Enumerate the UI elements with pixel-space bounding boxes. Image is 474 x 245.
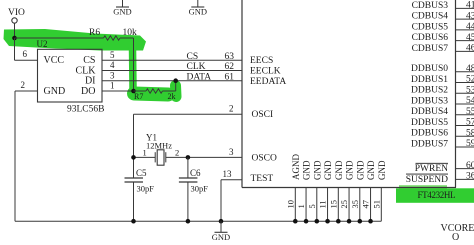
svg-text:GND: GND [323, 160, 333, 180]
resistor R7 [146, 89, 163, 93]
svg-text:55: 55 [466, 107, 474, 117]
svg-text:13: 13 [223, 169, 233, 179]
wire C6 top [187, 157, 189, 178]
svg-text:54: 54 [466, 96, 474, 106]
svg-text:3: 3 [229, 147, 234, 157]
svg-text:4: 4 [110, 60, 115, 70]
wire ground rail [15, 220, 381, 222]
node xtal-C6 [186, 155, 191, 160]
svg-text:62: 62 [225, 62, 235, 72]
svg-text:OSCI: OSCI [252, 110, 274, 120]
wire GND pin2 left [15, 90, 38, 92]
svg-text:C5: C5 [136, 168, 147, 178]
wire TEST row [221, 179, 242, 181]
wire xtal row right [166, 156, 242, 158]
svg-text:TEST: TEST [251, 174, 274, 184]
node rail-C6 [186, 219, 191, 224]
svg-text:Q: Q [452, 232, 460, 240]
svg-text:DDBUS1: DDBUS1 [411, 75, 448, 85]
svg-text:52: 52 [466, 75, 474, 85]
svg-text:6: 6 [23, 49, 28, 59]
node DO junction [131, 89, 136, 94]
svg-text:12MHz: 12MHz [146, 140, 172, 150]
svg-text:GND: GND [189, 7, 207, 17]
svg-text:DDBUS0: DDBUS0 [411, 64, 448, 74]
svg-text:11: 11 [318, 200, 328, 208]
svg-text:2: 2 [21, 80, 26, 90]
svg-text:EECS: EECS [250, 56, 273, 66]
ic pin GND 25 [348, 188, 350, 222]
svg-text:63: 63 [225, 52, 235, 62]
wire R7 to DATA [163, 90, 176, 92]
wire R6 to corner [120, 37, 134, 39]
svg-text:58: 58 [466, 129, 474, 139]
svg-text:3: 3 [110, 70, 115, 80]
svg-text:DDBUS2: DDBUS2 [411, 86, 448, 96]
svg-text:R6: R6 [89, 28, 100, 38]
svg-text:CDBUS5: CDBUS5 [412, 22, 449, 32]
eeprom U2 box [38, 49, 103, 102]
svg-text:2: 2 [175, 148, 179, 158]
svg-text:GND: GND [113, 7, 131, 17]
svg-text:CDBUS6: CDBUS6 [412, 33, 449, 43]
svg-text:GND: GND [302, 160, 312, 180]
node VIO junction [12, 36, 17, 41]
svg-text:GND: GND [212, 232, 230, 240]
svg-text:5: 5 [307, 204, 317, 208]
ic pin GND 51 [380, 188, 382, 222]
svg-text:30pF: 30pF [137, 183, 155, 193]
svg-text:VCC: VCC [44, 55, 65, 66]
svg-text:DO: DO [81, 86, 95, 97]
svg-text:1: 1 [296, 204, 306, 208]
svg-text:DATA: DATA [187, 72, 212, 82]
svg-text:43: 43 [466, 11, 474, 21]
svg-text:CDBUS4: CDBUS4 [412, 12, 449, 22]
ic pin GND 11 [327, 188, 329, 222]
svg-text:25: 25 [339, 200, 349, 209]
svg-text:R7: R7 [134, 92, 143, 101]
svg-text:DI: DI [85, 76, 96, 87]
svg-text:DDBUS7: DDBUS7 [411, 139, 448, 149]
wire down to DO node [133, 38, 135, 91]
svg-text:DDBUS6: DDBUS6 [411, 129, 448, 139]
svg-text:EEDATA: EEDATA [250, 77, 286, 87]
ic pin GND 1 [305, 188, 307, 222]
svg-text:41: 41 [466, 1, 474, 11]
svg-text:SUSPEND: SUSPEND [406, 175, 448, 185]
svg-text:GND: GND [44, 86, 66, 97]
ic pin AGND 10 [294, 188, 296, 222]
green highlight over FT4232HL [399, 185, 447, 190]
svg-text:CDBUS7: CDBUS7 [412, 44, 449, 54]
wire C5 down [133, 182, 135, 221]
svg-text:OSCO: OSCO [252, 153, 277, 163]
ic pin GND 47 [370, 188, 372, 222]
svg-text:DDBUS3: DDBUS3 [411, 96, 448, 106]
svg-text:DDBUS4: DDBUS4 [411, 107, 448, 117]
node rail-C5 [131, 219, 136, 224]
ground bottom [220, 221, 222, 232]
svg-text:U2: U2 [37, 39, 48, 49]
svg-text:PWREN: PWREN [415, 164, 448, 174]
svg-text:DDBUS5: DDBUS5 [411, 118, 448, 128]
svg-text:GND: GND [366, 160, 376, 180]
wire OSCI row [134, 113, 243, 115]
wire DO node to R7 [134, 90, 147, 92]
ground top-2 [197, 0, 199, 7]
svg-text:5: 5 [110, 50, 115, 60]
green highlight over R7 [134, 94, 168, 95]
svg-text:GND: GND [312, 160, 322, 180]
wire OSCI down [133, 114, 135, 177]
svg-text:57: 57 [466, 118, 474, 128]
wire DO stub [102, 90, 134, 92]
ground top-1 [122, 0, 124, 7]
svg-text:CS: CS [187, 52, 199, 62]
node rail-TEST [219, 219, 224, 224]
svg-text:FT4232HL: FT4232HL [418, 190, 456, 200]
svg-text:44: 44 [466, 22, 474, 32]
svg-text:53: 53 [466, 86, 474, 96]
svg-text:10k: 10k [123, 28, 138, 38]
svg-text:2: 2 [229, 104, 234, 114]
svg-text:GND: GND [355, 160, 365, 180]
svg-text:59: 59 [466, 139, 474, 149]
wire GND down [14, 91, 16, 221]
svg-text:CLK: CLK [187, 62, 206, 72]
svg-text:CDBUS3: CDBUS3 [412, 1, 449, 11]
node xtal-C5 [131, 155, 136, 160]
wire VIO to R6 [15, 37, 104, 39]
wire xtal row left [134, 156, 156, 158]
svg-text:VIO: VIO [8, 8, 25, 18]
svg-text:10: 10 [285, 200, 295, 209]
wire CS row [102, 59, 242, 61]
wire C6 down [187, 182, 189, 221]
svg-text:47: 47 [361, 200, 371, 209]
wire VIO stem [14, 23, 16, 38]
svg-text:30pF: 30pF [191, 183, 209, 193]
green highlight over VIO/R6 wire [4, 29, 147, 51]
green highlight vertical from R6 to DO node [129, 48, 137, 88]
svg-text:C6: C6 [190, 168, 201, 178]
svg-text:EECLK: EECLK [250, 67, 281, 77]
svg-text:15: 15 [328, 200, 338, 209]
wire VIO to VCC pin6 [14, 38, 16, 60]
svg-text:48: 48 [466, 64, 474, 74]
svg-text:GND: GND [345, 160, 355, 180]
wire DI row [102, 80, 242, 82]
ic pin GND 15 [337, 188, 339, 222]
svg-text:1: 1 [143, 148, 147, 158]
svg-text:45: 45 [466, 33, 474, 43]
svg-text:93LC56B: 93LC56B [67, 105, 104, 115]
ic pin GND 35 [359, 188, 361, 222]
svg-text:GND: GND [377, 160, 387, 180]
wire CLK row [102, 70, 242, 72]
resistor R6 [104, 36, 121, 40]
svg-text:61: 61 [225, 72, 235, 82]
svg-text:AGND: AGND [291, 154, 301, 180]
svg-text:60: 60 [466, 161, 474, 171]
svg-text:46: 46 [466, 44, 474, 54]
svg-text:1: 1 [110, 81, 115, 91]
ic pin GND 5 [316, 188, 318, 222]
svg-text:51: 51 [371, 200, 381, 209]
svg-text:GND: GND [334, 160, 344, 180]
svg-text:2k: 2k [168, 92, 176, 101]
crystal Y1 [154, 152, 156, 162]
ic FT4232HL outline [241, 0, 243, 188]
svg-text:35: 35 [350, 200, 360, 209]
node DATA junction [173, 78, 178, 83]
svg-text:36: 36 [466, 172, 474, 182]
